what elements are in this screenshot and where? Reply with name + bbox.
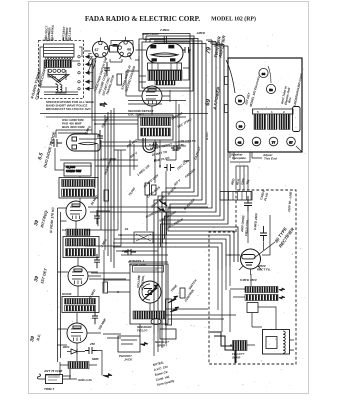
capacitor C9 bbox=[85, 347, 97, 354]
svg-text:FIELD?: FIELD? bbox=[137, 329, 148, 333]
svg-text:2 MEG: 2 MEG bbox=[159, 28, 170, 32]
coil L1 turns row bbox=[45, 57, 72, 59]
wire: U-link below T2 bbox=[143, 138, 156, 153]
socket 85 bbox=[252, 137, 261, 146]
label: phones bbox=[119, 354, 133, 362]
title MODEL 102 (RP) bbox=[211, 16, 256, 23]
svg-text:.1MFD: .1MFD bbox=[196, 31, 206, 35]
tube layout panel bbox=[225, 58, 303, 152]
junction dots bbox=[94, 123, 231, 293]
svg-text:OSC SHIFT: OSC SHIFT bbox=[128, 113, 144, 117]
socket 59a bbox=[266, 84, 275, 93]
label: 39 1st det (rotated) bbox=[33, 267, 48, 284]
capacitor C4 bbox=[124, 249, 136, 255]
resistor box R2 bbox=[64, 163, 91, 176]
capacitor C5 bbox=[164, 164, 175, 171]
resistor box R4 bbox=[134, 232, 153, 243]
wire: RF bottom bbox=[46, 345, 102, 376]
annotation clutter left bbox=[62, 115, 132, 330]
wire: left horizontal runs bbox=[55, 120, 138, 355]
terminal strip TS1 bbox=[293, 107, 301, 132]
arrow: alignment pointer bbox=[100, 102, 107, 106]
capacitor C8 bbox=[260, 226, 267, 242]
svg-text:MODEL 102 (RP): MODEL 102 (RP) bbox=[211, 16, 256, 23]
resistor R5 bbox=[145, 183, 156, 195]
terminal strip TS2 bbox=[220, 192, 252, 201]
oscillator padder coil L4 bbox=[56, 83, 62, 94]
annotation: center clutter 2 bbox=[125, 111, 202, 219]
socket 42 bbox=[235, 137, 244, 146]
antenna terminal A1 bbox=[46, 375, 63, 384]
svg-text:SPKR: SPKR bbox=[232, 356, 241, 360]
wire: V2 to V3 stage bbox=[135, 40, 189, 92]
tube V5 duo-diode-triode bbox=[67, 134, 101, 151]
label: antenna bbox=[43, 369, 92, 382]
svg-text:250: 250 bbox=[89, 342, 95, 346]
capacitor C14 bbox=[92, 310, 98, 324]
svg-text:57: 57 bbox=[289, 141, 293, 145]
svg-text:8 MFD: 8 MFD bbox=[149, 143, 159, 147]
coil L2 winding (hatched) bbox=[44, 60, 72, 68]
IF transformer T5 bbox=[62, 297, 99, 313]
wire: right bus group B (S-route into power unit) bbox=[161, 40, 239, 270]
coupling box C1a bbox=[110, 46, 118, 53]
svg-text:GRID LEAD: GRID LEAD bbox=[142, 32, 159, 36]
wire: panel underside bbox=[234, 146, 302, 160]
wire: top bus nest bbox=[143, 34, 206, 49]
tube V7 2nd det bbox=[68, 266, 88, 286]
voltage divider RD (hatched) bbox=[245, 287, 278, 301]
label: trimmer notes above box bbox=[44, 24, 73, 42]
svg-text:67: 67 bbox=[95, 48, 99, 52]
twin power tube V3 bbox=[147, 37, 184, 64]
tube V8 RF 39 bbox=[67, 323, 87, 343]
resistor R8 bbox=[103, 190, 109, 293]
svg-text:BROADCAST 540-1700 KC AVC: BROADCAST 540-1700 KC AVC bbox=[46, 107, 92, 111]
wire: antenna lead bbox=[38, 369, 78, 379]
svg-text:GND LUG: GND LUG bbox=[78, 378, 92, 382]
tube V4 driver bbox=[142, 86, 162, 106]
diode D1 bbox=[71, 349, 77, 354]
svg-text:FADA RADIO & ELECTRIC CORP.: FADA RADIO & ELECTRIC CORP. bbox=[85, 15, 200, 23]
annotation power bbox=[240, 190, 293, 282]
svg-text:MMF: MMF bbox=[92, 357, 99, 361]
label: panel annotations (rotated) bbox=[244, 73, 303, 107]
annotation: duo input block bbox=[62, 118, 85, 129]
IF coil L6 (hatched) bbox=[68, 362, 89, 369]
arrow: phono out bbox=[140, 342, 148, 345]
svg-text:2.5V: 2.5V bbox=[177, 143, 185, 147]
resistor box R6 bbox=[247, 303, 258, 313]
label: 80 rectifier (rotated) bbox=[274, 225, 296, 248]
band switch S1 enclosure (dashed) bbox=[39, 41, 84, 99]
svg-text:BIAS 3000 OHM: BIAS 3000 OHM bbox=[62, 125, 85, 129]
label: 65 duo diode triode (rotated) bbox=[37, 131, 57, 168]
output pad OP1 (hatched) bbox=[232, 341, 247, 360]
socket 59c bbox=[236, 121, 245, 130]
annotation cluster top bbox=[93, 28, 206, 96]
svg-text:RECT FIL: RECT FIL bbox=[257, 268, 271, 272]
svg-text:A.V.C.: A.V.C. bbox=[205, 131, 209, 141]
label: 79 twin power amplifier (rotated) bbox=[206, 35, 227, 59]
wire: duo input bbox=[56, 120, 92, 138]
IF transformer T2 bbox=[138, 115, 173, 140]
capacitor C12 bbox=[94, 210, 100, 224]
label: needle box bbox=[155, 340, 169, 348]
socket 90 bbox=[259, 68, 268, 77]
label: 39 R.F. (rotated) bbox=[29, 334, 42, 343]
annotation: T2 label bbox=[128, 109, 154, 117]
capacitor C10 bbox=[104, 62, 110, 76]
capacitor C13 bbox=[94, 254, 100, 268]
wire: mid connect bbox=[85, 140, 236, 336]
svg-text:DIODE: DIODE bbox=[62, 292, 73, 296]
annotation bottom left bbox=[44, 342, 99, 391]
tube V6 int freq 39 bbox=[66, 201, 86, 221]
volume control VR1 bbox=[139, 281, 161, 303]
wire: power internals bbox=[218, 152, 294, 350]
arrow: VR1 wiper bbox=[142, 285, 159, 302]
wire: V4 grid run bbox=[128, 101, 186, 105]
svg-text:.01: .01 bbox=[124, 227, 129, 231]
label: notes block bbox=[152, 360, 175, 387]
wire: V1 to V2 coupling bbox=[108, 41, 133, 63]
label: gang condenser (rotated) bbox=[30, 61, 49, 101]
resistor R3 bbox=[166, 288, 186, 325]
pointer wire into panel bbox=[226, 60, 271, 93]
label: speaker faceplate bbox=[231, 153, 277, 161]
resistor strip RV (hatched) bbox=[133, 311, 166, 319]
arrow: divider taps bbox=[279, 288, 285, 299]
coil L3 cone bbox=[48, 75, 69, 83]
capacitor C2 bbox=[183, 47, 191, 53]
arrow: tone pointer pair bbox=[168, 296, 179, 312]
socket 57 bbox=[287, 137, 296, 146]
annotation mid text bbox=[129, 259, 198, 333]
annotation: spec rows under coupler bbox=[46, 100, 94, 111]
capacitor C11 bbox=[97, 130, 103, 144]
output stage enclosure bbox=[139, 39, 193, 91]
tube V2 translator socket bbox=[118, 37, 134, 60]
svg-text:77: 77 bbox=[272, 141, 276, 145]
tube V1 1st det-osc socket bbox=[92, 37, 108, 60]
power unit enclosure (dashed) bbox=[209, 190, 296, 364]
capacitor C7 bbox=[244, 196, 252, 212]
label: 39 int freq (rotated) bbox=[33, 206, 55, 233]
trimmer pad P1 bbox=[151, 319, 161, 325]
annotation: center italic notes bbox=[136, 131, 209, 231]
svg-text:JACK: JACK bbox=[124, 358, 133, 362]
wire: AVC bus horizontals bbox=[113, 235, 166, 251]
svg-text:This End: This End bbox=[264, 157, 277, 161]
arrow: bias pointer pair bbox=[157, 200, 167, 212]
label: 69 A.F. power (rotated) bbox=[205, 86, 221, 111]
phono jack J1 bbox=[118, 336, 140, 352]
IF transformer T4 bbox=[63, 237, 99, 258]
wire: bottom distribution bbox=[103, 330, 166, 356]
speaker field choke L5 bbox=[263, 330, 290, 355]
wire: AVC long horizontals bbox=[40, 114, 208, 280]
capacitor C1 bbox=[113, 45, 118, 47]
title FADA RADIO & ELECTRIC CORP. bbox=[85, 15, 200, 23]
IF transformer T3 bbox=[59, 178, 98, 199]
socket 59b 1st det bbox=[235, 95, 245, 105]
wire: trimmer leads bbox=[46, 38, 71, 42]
arrow: ground out bbox=[103, 374, 112, 378]
svg-text:OHMS ½W: OHMS ½W bbox=[66, 169, 81, 173]
wire: left bus bbox=[58, 58, 115, 362]
switch S1 wiper arrows bbox=[78, 55, 90, 90]
svg-text:59: 59 bbox=[269, 88, 273, 92]
svg-text:39: 39 bbox=[239, 125, 243, 129]
resistor bank RB1 (hatched) bbox=[253, 109, 294, 130]
socket 77 bbox=[269, 137, 278, 146]
wire: right bus group A (south) bbox=[154, 40, 202, 334]
svg-text:.0001: .0001 bbox=[62, 345, 70, 349]
switch S1 contact row bbox=[48, 69, 65, 72]
label: cable colors bbox=[230, 177, 269, 201]
svg-text:59: 59 bbox=[238, 99, 242, 103]
rectifier tube V9 bbox=[239, 242, 275, 275]
svg-text:66: 66 bbox=[127, 48, 131, 52]
antenna coupler coil L1 bbox=[44, 44, 75, 57]
coupling choke L7 (hatched) bbox=[66, 229, 90, 236]
svg-text:50,000 OHM: 50,000 OHM bbox=[129, 263, 147, 267]
wire: V1 pin fan to switch bbox=[84, 51, 96, 72]
output transformer T1 (hatched) bbox=[148, 63, 183, 85]
svg-text:90: 90 bbox=[262, 72, 266, 76]
capacitor C6 bbox=[171, 145, 181, 151]
wire: V4 circuit bbox=[126, 71, 170, 115]
wire: coupler internal bbox=[40, 47, 82, 95]
wire: tube V4 plate drop bbox=[114, 100, 179, 176]
svg-text:SPKR?: SPKR? bbox=[157, 344, 167, 348]
resistor R7 bbox=[117, 74, 122, 85]
svg-text:8 MFD 450V: 8 MFD 450V bbox=[240, 278, 258, 282]
volume control assembly box bbox=[130, 264, 168, 324]
svg-text:42: 42 bbox=[238, 141, 242, 145]
svg-text:85: 85 bbox=[255, 141, 259, 145]
chassis step shield bbox=[210, 332, 236, 363]
svg-text:TRIM-T: TRIM-T bbox=[44, 387, 55, 391]
capacitor C3 bbox=[50, 139, 62, 147]
wire: switch to tube V1 bbox=[89, 57, 93, 89]
needle box B2 bbox=[160, 329, 176, 339]
